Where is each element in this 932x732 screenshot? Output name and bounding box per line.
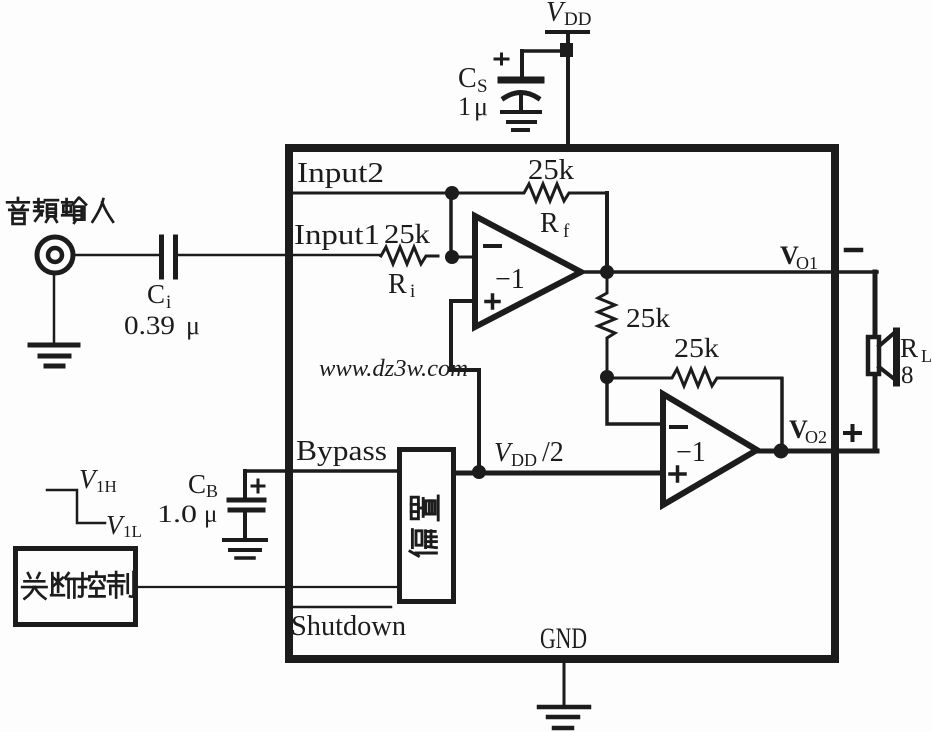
op-amp U1A [475,216,581,327]
wire noninverting input opamp1 [451,301,479,472]
label Ci value [124,311,200,340]
node junction dot R3 bottom [600,370,614,384]
label bias (pian zhi) rotated glyphs [410,496,438,556]
label opamp1 plus [486,295,499,308]
wire bypass from CB to bias box [245,469,397,473]
svg-text:L: L [921,346,932,366]
glyph pian [410,530,436,556]
glyph duan [51,573,77,597]
wire J1 to Ci [74,254,159,257]
glyph zhi [108,572,134,598]
svg-text:C: C [147,279,165,309]
label CB value + [157,469,264,528]
svg-text:V: V [546,0,566,28]
wire VO1 down right side [873,272,878,336]
label speaker plus [845,426,860,440]
node output1 junction dot [600,265,614,279]
wire VDD to CS [522,49,562,53]
svg-text:μ: μ [204,501,217,528]
label opamp2 minus [671,425,686,429]
node bypass junction dot [472,465,486,479]
svg-text:R: R [388,269,407,300]
label opamp2 plus [670,467,685,481]
wire output opamp2 VO2 [757,449,877,454]
ground for CB [224,540,266,558]
bias box (pian zhi) [400,450,454,602]
svg-text:/2: /2 [542,437,564,468]
svg-text:www.dz3w.com: www.dz3w.com [319,356,468,382]
svg-text:GND: GND [540,622,587,655]
resistor R3 25k vertical [598,277,615,377]
wire J1 to ground [53,273,56,343]
svg-text:μ: μ [186,311,200,340]
glyph shu [62,198,86,223]
wire VO2 up right side [873,375,878,451]
glyph ru [92,199,113,222]
glyph pin [34,199,58,222]
svg-text:8: 8 [901,362,914,389]
svg-text:−1: −1 [495,264,525,295]
node VDD junction square [560,43,573,57]
resistor R4 25k horizontal [607,369,782,386]
label Rf [540,208,570,242]
wire inverting input opamp1 [456,256,475,259]
svg-text:25k: 25k [384,219,431,249]
svg-text:25k: 25k [626,303,671,333]
svg-text:i: i [166,292,171,313]
label CS value + [458,54,508,121]
wire VDD stem [566,33,570,44]
svg-text:R: R [540,208,559,239]
svg-text:Shutdown: Shutdown [291,611,406,642]
svg-text:Bypass: Bypass [296,436,387,467]
svg-text:μ: μ [474,92,488,121]
svg-text:1H: 1H [96,477,117,496]
speaker RL [868,331,897,383]
svg-text:DD: DD [511,450,537,470]
ground for CS [502,112,540,130]
capacitor Ci [162,237,176,277]
wire CS drop [520,51,524,78]
IC box U1 [289,148,835,659]
waveform V1H V1L [47,464,142,541]
wire VDD into IC [566,57,570,148]
svg-text:0.39: 0.39 [124,311,175,340]
label opamp1 minus [485,244,500,248]
capacitor CB [229,471,264,540]
svg-text:O2: O2 [805,427,827,447]
wire Input2 [292,192,451,195]
svg-text:Input1: Input1 [294,220,380,251]
glyph zhi [411,496,438,520]
glyph kong [79,572,105,597]
svg-text:DD: DD [564,9,591,30]
node output2 junction dot [774,444,789,459]
wire bias box to opamp2 plus [456,471,663,476]
op-amp U1B [663,394,757,505]
svg-text:i: i [410,281,415,302]
label VDD/2 [494,437,564,470]
wire shutdown control to bias [137,586,397,588]
connector J1 audio input [37,237,73,273]
svg-text:1.0: 1.0 [157,501,197,528]
label Ci [147,279,171,313]
ground for IC GND pin [539,663,589,728]
label Ri [388,269,415,302]
svg-text:R: R [900,333,918,363]
label audio input (yin pin shu ru) hand-drawn glyphs [7,198,113,224]
resistor Rf [452,184,607,201]
glyph yin [7,198,29,224]
node VO2 label [789,415,827,447]
ground for J1 [30,345,78,366]
wire Rf down to output node [605,193,609,266]
wire output opamp1 VO1 [581,270,877,274]
svg-text:C: C [188,469,206,499]
wire R4 down to VO2 [780,379,784,451]
VDD supply rail bar [547,30,588,34]
svg-text:−1: −1 [676,437,706,468]
node VO1 label [780,241,818,273]
wire R3 node to opamp2 inverting [607,377,663,424]
wire Input1 [292,254,381,257]
node junction dot input2 [445,186,459,200]
svg-text:1L: 1L [123,522,142,541]
svg-text:Input2: Input2 [297,158,384,189]
node VDD label [546,0,591,30]
label RL [900,333,932,389]
shutdown control box [16,549,136,625]
pin label Shutdown with overline [291,607,406,642]
label speaker minus [846,248,861,253]
svg-text:f: f [563,221,570,242]
svg-text:B: B [206,481,218,501]
svg-text:25k: 25k [674,333,720,363]
resistor Ri [381,247,438,264]
wire input2 to input1 node [449,193,453,257]
label shutdown control (guan duan kong zhi) glyphs [22,572,133,599]
node junction dot input1 [445,250,459,264]
svg-text:25k: 25k [528,155,574,186]
wire Ci to IC [178,254,292,257]
svg-text:1: 1 [458,92,471,121]
svg-text:C: C [458,63,477,94]
glyph guan [22,573,46,599]
svg-text:O1: O1 [796,253,818,273]
capacitor CS [501,80,541,111]
